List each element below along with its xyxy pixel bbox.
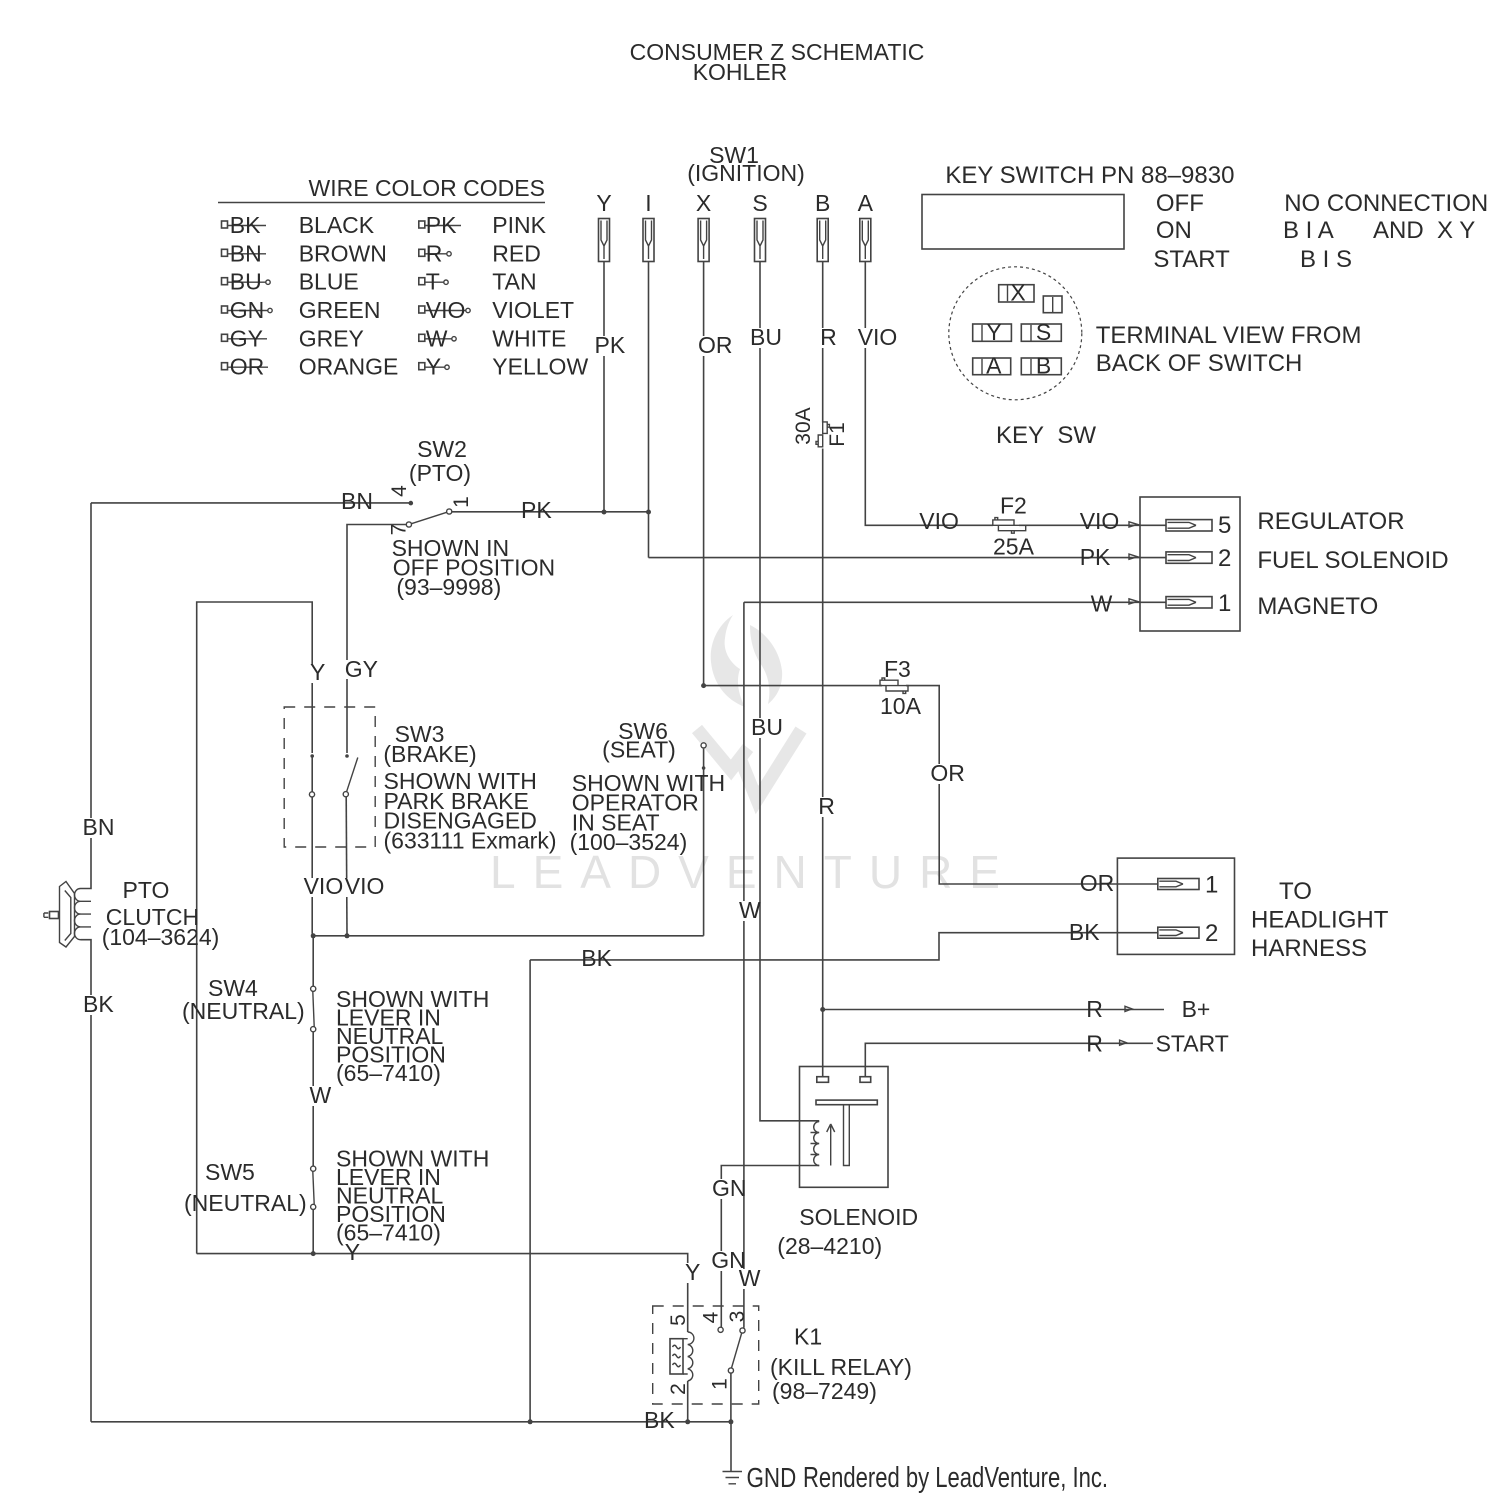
- label BU mid: [750, 714, 786, 740]
- label Y above SW3: [307, 659, 325, 685]
- wire code W WHITE: [419, 325, 567, 351]
- svg-text:SW5: SW5: [205, 1159, 255, 1185]
- left rail BK wire: [81, 940, 92, 1422]
- svg-text:BK: BK: [581, 945, 612, 971]
- svg-text:VIOLET: VIOLET: [492, 297, 574, 323]
- wire PK to fuel solenoid: [649, 557, 1167, 559]
- svg-text:2: 2: [1205, 920, 1218, 947]
- terminal keyway: [1043, 296, 1062, 313]
- svg-text:R: R: [1086, 1031, 1103, 1057]
- wire SW5 to Y bus: [312, 1210, 314, 1254]
- svg-text:X Y: X Y: [1437, 217, 1475, 244]
- K1 blade: [732, 1333, 742, 1368]
- svg-text:1: 1: [709, 1378, 732, 1390]
- svg-text:ON: ON: [1156, 217, 1192, 244]
- svg-text:10A: 10A: [880, 693, 922, 719]
- wire Y net top: [197, 602, 313, 1254]
- wire BK to headlight connector: [530, 933, 1158, 960]
- solenoid plunger stem: [844, 1105, 850, 1166]
- svg-text:A: A: [858, 190, 874, 216]
- switch SW3 brake dashed box: [284, 707, 375, 847]
- svg-text:R: R: [426, 240, 443, 266]
- svg-text:W: W: [739, 897, 761, 923]
- wire code R RED: [419, 240, 541, 266]
- svg-text:VIO: VIO: [426, 297, 466, 323]
- svg-text:OR: OR: [230, 354, 264, 380]
- svg-text:OR: OR: [1080, 870, 1115, 896]
- svg-text:S: S: [752, 190, 767, 216]
- svg-text:F1: F1: [826, 422, 849, 447]
- key switch terminal view circle: [949, 267, 1082, 400]
- terminal X box: [999, 280, 1034, 306]
- svg-text:F2: F2: [1000, 493, 1027, 519]
- svg-text:I: I: [645, 190, 651, 216]
- kill relay K1 dashed box: [653, 1306, 759, 1404]
- label R pin B wire: [819, 324, 838, 350]
- svg-text:(98–7249): (98–7249): [772, 1378, 877, 1404]
- label GY above SW3: [343, 656, 378, 682]
- wire code T TAN: [419, 269, 537, 295]
- terminal Y box: [973, 319, 1012, 345]
- svg-text:(KILL RELAY): (KILL RELAY): [770, 1354, 912, 1380]
- label OR pin X wire: [697, 332, 733, 358]
- wire Y bus to kill relay coil: [197, 1254, 688, 1332]
- svg-text:BU: BU: [230, 269, 262, 295]
- watermark graphics (decorative): [490, 615, 1017, 898]
- svg-text:Y: Y: [596, 190, 611, 216]
- svg-text:RED: RED: [492, 240, 541, 266]
- wire PK from SW2 terminal 1: [452, 511, 649, 513]
- SW1 pin A: [858, 190, 874, 262]
- svg-text:1: 1: [1205, 872, 1218, 899]
- svg-text:PTO: PTO: [123, 877, 170, 903]
- svg-text:HARNESS: HARNESS: [1251, 935, 1367, 962]
- svg-text:3: 3: [726, 1311, 749, 1323]
- svg-text:SW2: SW2: [417, 436, 467, 462]
- label GN lower: [710, 1247, 746, 1273]
- svg-text:GND: GND: [747, 1463, 797, 1494]
- left rail BN wire: [81, 503, 92, 889]
- wire code BN BROWN: [222, 240, 387, 266]
- svg-text:B I S: B I S: [1300, 246, 1352, 273]
- svg-text:S: S: [1036, 319, 1051, 345]
- svg-text:OR: OR: [930, 760, 965, 786]
- wire VIO from pin A to regulator: [865, 262, 993, 526]
- svg-text:PK: PK: [426, 212, 457, 238]
- wire W down to kill relay: [743, 602, 745, 1328]
- svg-text:Y: Y: [685, 1259, 700, 1285]
- svg-text:(IGNITION): (IGNITION): [687, 160, 805, 186]
- label BN left rail: [81, 814, 114, 840]
- svg-text:(65–7410): (65–7410): [336, 1060, 441, 1086]
- wire code GN GREEN: [222, 297, 381, 323]
- svg-text:BN: BN: [230, 240, 262, 266]
- svg-text:R: R: [1086, 996, 1103, 1022]
- svg-text:TAN: TAN: [492, 269, 536, 295]
- svg-text:OR: OR: [698, 332, 733, 358]
- svg-text:(SEAT): (SEAT): [602, 737, 676, 763]
- svg-text:T: T: [426, 269, 440, 295]
- headlight pin 2 terminal: [1158, 920, 1219, 947]
- solenoid plunger bar: [816, 1100, 877, 1105]
- SW1 pin Y: [596, 190, 611, 262]
- svg-text:PK: PK: [595, 332, 626, 358]
- wire code GY GREY: [222, 325, 364, 351]
- svg-text:ORANGE: ORANGE: [299, 354, 399, 380]
- svg-text:Rendered by LeadVenture, Inc.: Rendered by LeadVenture, Inc.: [803, 1462, 1108, 1494]
- svg-text:(93–9998): (93–9998): [396, 574, 501, 600]
- wire OR to fuse F3: [704, 685, 882, 687]
- label R mid: [817, 793, 837, 819]
- svg-text:BN: BN: [83, 814, 115, 840]
- wire code BK BLACK: [222, 212, 375, 238]
- wire BU from pin S down to solenoid: [760, 262, 819, 1121]
- SW1 pin X: [696, 190, 711, 262]
- label PK pin Y wire: [593, 332, 626, 358]
- wire SW3 left continues to SW4: [312, 936, 314, 987]
- SW1 pin B: [815, 190, 830, 262]
- svg-text:BU: BU: [751, 714, 783, 740]
- svg-text:1: 1: [1218, 590, 1231, 617]
- ground wire: [730, 1422, 732, 1472]
- regulator pin 1 terminal: [1129, 590, 1231, 617]
- svg-text:VIO: VIO: [304, 873, 344, 899]
- svg-text:30A: 30A: [792, 407, 815, 444]
- fuse F3 10A: [880, 678, 908, 693]
- wire code PK PINK: [419, 212, 547, 238]
- svg-text:B: B: [815, 190, 830, 216]
- SW3 left pole: [310, 754, 314, 758]
- svg-text:B I A: B I A: [1283, 217, 1334, 244]
- svg-text:5: 5: [667, 1314, 690, 1326]
- svg-text:25A: 25A: [993, 534, 1035, 560]
- PTO clutch plate: [60, 882, 75, 948]
- wire PK from pin I down: [648, 262, 650, 558]
- svg-text:Y: Y: [426, 354, 441, 380]
- svg-text:F3: F3: [884, 656, 911, 682]
- svg-text:B+: B+: [1182, 996, 1211, 1022]
- svg-text:OFF: OFF: [1156, 190, 1204, 217]
- label VIO under SW3 left: [303, 873, 344, 899]
- K1 common to BK: [730, 1373, 732, 1422]
- SW1 pin S: [752, 190, 767, 262]
- svg-text:X: X: [1010, 280, 1025, 306]
- svg-text:GREEN: GREEN: [299, 297, 381, 323]
- terminal B box: [1021, 353, 1061, 379]
- junction pin I wire on PK net: [646, 510, 651, 515]
- svg-text:(PTO): (PTO): [409, 460, 471, 486]
- svg-text:K1: K1: [794, 1324, 822, 1350]
- svg-text:(633111 Exmark): (633111 Exmark): [384, 827, 557, 853]
- svg-text:(104–3624): (104–3624): [102, 924, 220, 950]
- PTO clutch coil: [74, 889, 80, 940]
- K1 contact 4: [700, 1311, 723, 1323]
- wire W to magneto: [744, 601, 1166, 603]
- headlight pin 1 terminal: [1158, 872, 1219, 899]
- svg-text:(NEUTRAL): (NEUTRAL): [184, 1190, 307, 1216]
- wire code VIO VIOLET: [419, 297, 574, 323]
- wire VIO from fuse F2 to regulator pin 5: [1019, 524, 1166, 526]
- svg-text:X: X: [696, 190, 711, 216]
- svg-text:VIO: VIO: [1080, 508, 1120, 534]
- svg-text:(100–3524): (100–3524): [570, 829, 688, 855]
- svg-text:W: W: [426, 325, 448, 351]
- svg-text:BLUE: BLUE: [299, 269, 359, 295]
- ground symbol: [723, 1472, 743, 1484]
- terminal S box: [1021, 319, 1061, 345]
- svg-text:AND: AND: [1373, 217, 1424, 244]
- wire R from fuse F1 down to solenoid: [822, 449, 824, 1078]
- label BK left rail: [82, 991, 115, 1017]
- svg-text:BK: BK: [230, 212, 261, 238]
- key switch box: [922, 195, 1124, 250]
- svg-text:2: 2: [667, 1383, 690, 1395]
- svg-text:(28–4210): (28–4210): [777, 1233, 882, 1259]
- junction OR at F3 branch: [701, 683, 706, 688]
- svg-text:SOLENOID: SOLENOID: [799, 1204, 918, 1230]
- svg-text:5: 5: [1218, 512, 1231, 539]
- wire code Y YELLOW: [419, 354, 589, 380]
- svg-text:MAGNETO: MAGNETO: [1257, 593, 1378, 620]
- PTO clutch plug: [50, 912, 59, 919]
- label W mid: [738, 897, 762, 923]
- svg-text:GREY: GREY: [299, 325, 364, 351]
- label GN upper: [711, 1175, 747, 1201]
- junction pin Y wire on PK net: [602, 510, 607, 515]
- label Y at relay: [684, 1259, 700, 1285]
- wire BK down to bottom rail: [529, 960, 531, 1422]
- svg-text:4: 4: [700, 1311, 723, 1323]
- wire OR from F3 down to headlight connector: [906, 686, 1158, 884]
- wire OR from pin X down: [703, 262, 705, 686]
- wire code OR ORANGE: [222, 354, 399, 380]
- svg-text:VIO: VIO: [919, 508, 959, 534]
- svg-text:BK: BK: [1069, 919, 1100, 945]
- solenoid box: [800, 1067, 889, 1188]
- label VIO pin A wire: [856, 324, 897, 350]
- svg-text:WHITE: WHITE: [492, 325, 566, 351]
- label W between SW4 SW5: [308, 1082, 332, 1108]
- wire BN from left rail to SW2: [91, 502, 409, 504]
- svg-text:4: 4: [388, 485, 411, 497]
- label OR on vertical: [929, 760, 965, 786]
- wire color codes underline: [218, 202, 545, 204]
- svg-text:PK: PK: [521, 497, 552, 523]
- svg-text:HEADLIGHT: HEADLIGHT: [1251, 907, 1389, 934]
- K1 coil: [667, 1314, 690, 1326]
- label W at relay: [737, 1265, 761, 1291]
- svg-text:BU: BU: [750, 324, 782, 350]
- svg-text:BN: BN: [341, 488, 373, 514]
- headlight connector box: [1117, 858, 1234, 954]
- svg-text:WIRE COLOR CODES: WIRE COLOR CODES: [309, 175, 545, 201]
- svg-text:BK: BK: [83, 991, 114, 1017]
- svg-text:YELLOW: YELLOW: [492, 354, 588, 380]
- svg-text:BACK OF SWITCH: BACK OF SWITCH: [1096, 350, 1303, 377]
- svg-text:R: R: [820, 324, 837, 350]
- svg-text:KEY SWITCH PN 88–9830: KEY SWITCH PN 88–9830: [945, 162, 1234, 189]
- wire PK from pin Y down: [603, 262, 605, 512]
- SW3 right pole: [345, 754, 349, 758]
- svg-text:(NEUTRAL): (NEUTRAL): [182, 998, 305, 1024]
- svg-text:TERMINAL VIEW FROM: TERMINAL VIEW FROM: [1096, 322, 1362, 349]
- svg-text:W: W: [1091, 591, 1113, 617]
- svg-text:REGULATOR: REGULATOR: [1257, 508, 1404, 535]
- svg-text:GY: GY: [230, 325, 263, 351]
- regulator connector box: [1140, 497, 1240, 631]
- svg-text:GY: GY: [345, 656, 378, 682]
- svg-text:W: W: [310, 1082, 332, 1108]
- svg-text:W: W: [739, 1265, 761, 1291]
- svg-text:BLACK: BLACK: [299, 212, 375, 238]
- svg-text:TO: TO: [1279, 878, 1312, 905]
- regulator pin 5 terminal: [1129, 512, 1231, 539]
- SW1 pin I: [643, 190, 654, 262]
- svg-text:GN: GN: [712, 1175, 747, 1201]
- solenoid arrow: [827, 1124, 835, 1166]
- svg-text:1: 1: [450, 496, 473, 508]
- svg-text:KOHLER: KOHLER: [693, 59, 788, 85]
- solenoid terminal right: [860, 1077, 871, 1083]
- junction R at B+: [820, 1007, 825, 1012]
- svg-text:Y: Y: [986, 319, 1001, 345]
- svg-text:Y: Y: [310, 659, 325, 685]
- svg-text:START: START: [1156, 1031, 1229, 1057]
- regulator pin 2 terminal: [1129, 545, 1231, 572]
- svg-text:VIO: VIO: [858, 324, 898, 350]
- solenoid coil: [811, 1122, 820, 1166]
- svg-text:B: B: [1036, 353, 1051, 379]
- wire R to B+: [823, 1009, 1164, 1011]
- wire R to START: [865, 1043, 1153, 1076]
- svg-text:GN: GN: [230, 297, 264, 323]
- fuse F2 25A: [993, 518, 1026, 534]
- wire W between SW4 and SW5: [312, 1032, 314, 1166]
- svg-text:KEY SW: KEY SW: [996, 422, 1096, 449]
- terminal A box: [973, 353, 1011, 379]
- wire from SW2 terminal 7: [347, 525, 406, 754]
- svg-text:PINK: PINK: [492, 212, 546, 238]
- svg-text:A: A: [986, 353, 1002, 379]
- fuse F1 30A: [816, 422, 829, 447]
- svg-text:BK: BK: [644, 1407, 675, 1433]
- svg-text:FUEL SOLENOID: FUEL SOLENOID: [1257, 547, 1448, 574]
- svg-text:VIO: VIO: [345, 873, 385, 899]
- svg-text:(BRAKE): (BRAKE): [383, 741, 476, 767]
- svg-text:Y: Y: [345, 1239, 360, 1265]
- wire VIO bus to seat switch: [313, 935, 703, 937]
- svg-text:BROWN: BROWN: [299, 240, 387, 266]
- K1 contact 3: [726, 1311, 749, 1323]
- wire code BU BLUE: [222, 269, 359, 295]
- label BU pin S wire: [749, 324, 784, 350]
- bottom BK rail: [91, 1421, 731, 1423]
- svg-text:2: 2: [1218, 545, 1231, 572]
- svg-text:NO CONNECTION: NO CONNECTION: [1284, 190, 1488, 217]
- svg-text:R: R: [818, 793, 835, 819]
- svg-text:PK: PK: [1080, 544, 1111, 570]
- svg-text:START: START: [1153, 246, 1230, 273]
- wire R from pin B down to fuse F1: [822, 262, 824, 423]
- solenoid terminal left: [817, 1077, 829, 1083]
- label VIO under SW3 right: [345, 873, 385, 899]
- wire GN from solenoid coil: [721, 1166, 819, 1328]
